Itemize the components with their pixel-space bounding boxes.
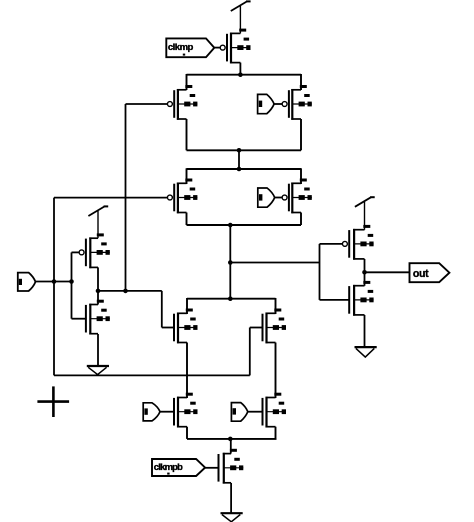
node inverter output junction — [96, 289, 101, 294]
wire row1 top rail — [187, 74, 302, 76]
node inverter input junction — [69, 279, 74, 284]
nmos MN2 row3 right (gate = d) — [262, 314, 264, 342]
wire dbar drop — [161, 291, 163, 328]
wire dbar to MN1 gate — [162, 327, 174, 329]
vdd power symbol (output inverter) — [364, 202, 366, 230]
node d net junction at x54 — [52, 279, 57, 284]
wire MP5 drain to output node — [97, 267, 99, 291]
wire row3-row4 left series — [186, 343, 188, 399]
wire row1 left drain drop — [186, 119, 188, 150]
wire output inverter input rail — [319, 244, 321, 300]
wire d net bottom horizontal — [54, 374, 250, 376]
wire pin to MP2 gate — [274, 103, 282, 105]
vdd power symbol (left inverter) — [97, 211, 99, 238]
wire row2 left drain drop — [186, 213, 188, 226]
node dbar junction — [123, 289, 128, 294]
pin out (output) — [410, 263, 450, 282]
wire dbar inverter out to junction — [98, 290, 126, 292]
node bottom rail junction — [228, 437, 233, 442]
nmos MN6 output inverter — [348, 286, 350, 314]
wire to MP5 gate — [72, 251, 80, 253]
wire MP6 drain to out node — [364, 259, 366, 286]
wire row3 left drain rise — [186, 298, 188, 314]
wire d pin to inverter input — [36, 281, 72, 283]
wire MN6 source to ground — [364, 315, 366, 347]
pin net stub at MP2 gate — [258, 94, 275, 113]
wire row2 left source drop — [186, 168, 188, 184]
wire row3 right drain rise — [275, 298, 277, 314]
nmos MN3 row4 left (gate = pin) — [173, 398, 175, 426]
wire d net vertical rail — [53, 198, 55, 376]
wire d net rise to MN2 gate — [249, 328, 251, 376]
pin clkmp (input) — [166, 38, 214, 57]
wire row1 right source drop — [300, 74, 302, 90]
wire clkmpb pin to MN0 gate — [205, 467, 218, 469]
svg-text:clkmpb: clkmpb — [154, 461, 183, 472]
wire row1 bottom rail — [187, 149, 302, 151]
wire row1-row2 connector — [238, 150, 240, 169]
wire pin to MN4 gate — [248, 411, 263, 413]
pin net stub at MN3 gate — [143, 403, 160, 421]
wire center spine — [229, 225, 231, 299]
wire row2 top rail — [187, 168, 302, 170]
node row2 top junction — [237, 167, 242, 172]
wire d net to MN2 gate — [250, 327, 263, 329]
vdd power symbol (top clock header) — [239, 6, 241, 33]
pin net stub at MN4 gate — [231, 403, 247, 422]
wire row1 left source drop — [186, 74, 188, 90]
nmos MN5 input inverter — [85, 305, 87, 333]
wire inverter input rail — [71, 252, 73, 318]
nmos MN4 row4 right (gate = pin) — [262, 398, 264, 426]
node row3 rail junction — [228, 296, 233, 301]
wire MN5 drain to output node — [97, 291, 99, 305]
nmos MN0 clock footer (gate from clkmpb) — [218, 454, 220, 482]
wire MN5 source to ground — [97, 334, 99, 366]
pmos MP6 output inverter — [348, 230, 350, 258]
wire pin to MP4 gate — [275, 197, 283, 199]
ground symbol (output inverter) — [355, 346, 377, 348]
ground symbol (left inverter) — [87, 365, 109, 367]
wire to MN5 gate — [72, 318, 86, 320]
wire row2 right drain drop — [300, 213, 302, 226]
pin clkmpb (input) — [152, 459, 205, 476]
node row1 top rail junction — [238, 72, 243, 77]
pmos MP0 clock header (gate from clkmp) — [226, 34, 228, 62]
wire dbar rise to MP1 gate — [125, 104, 127, 291]
pmos MP4 row2 right (gate = pin) — [288, 184, 290, 212]
wire row3-row4 right series — [275, 343, 277, 399]
wire row2 bottom rail — [187, 224, 302, 226]
wire out node to out pin — [365, 271, 410, 273]
pin d (input) — [18, 273, 36, 291]
ground symbol (bottom) — [221, 512, 243, 514]
wire to MN6 gate — [320, 299, 350, 301]
wire to MP6 gate — [320, 243, 343, 245]
pmos MP5 input inverter — [85, 239, 87, 267]
wire pin to MN3 gate — [160, 411, 174, 413]
wire row2 right source drop — [300, 168, 302, 184]
wire dbar right toward MN1 — [126, 290, 162, 292]
node row1 bottom junction — [237, 148, 242, 153]
pmos MP2 row1 right (gate = pin) — [288, 90, 290, 118]
pmos MP1 row1 left (gate = dbar) — [173, 90, 175, 118]
wire MN0 source to ground — [230, 483, 232, 513]
node X output tap junction — [228, 260, 233, 265]
pmos MP3 row2 left (gate = d) — [173, 184, 175, 212]
wire row3 top rail — [187, 298, 276, 300]
origin cross marker — [37, 400, 69, 403]
pin net stub at MP4 gate — [258, 188, 275, 207]
wire MP0 drain to row1 rail — [239, 63, 241, 75]
svg-text:clkmp: clkmp — [168, 42, 194, 53]
wire rail to MN0 drain — [230, 439, 232, 454]
wire row4 bottom rail — [187, 438, 277, 440]
node X spine top junction — [228, 223, 233, 228]
wire clkmp pin to MP0 gate — [214, 47, 220, 49]
svg-text:out: out — [413, 268, 429, 280]
node out junction — [362, 270, 367, 275]
wire row4 left source drop — [186, 427, 188, 439]
nmos MN1 row3 left (gate = dbar) — [173, 314, 175, 342]
wire output tap to inverter — [230, 262, 319, 264]
wire d net to MP3 gate — [54, 197, 168, 199]
wire row1 right drain drop — [300, 119, 302, 150]
wire dbar horizontal to MP1 gate — [126, 103, 168, 105]
wire row4 right source drop — [275, 427, 277, 439]
